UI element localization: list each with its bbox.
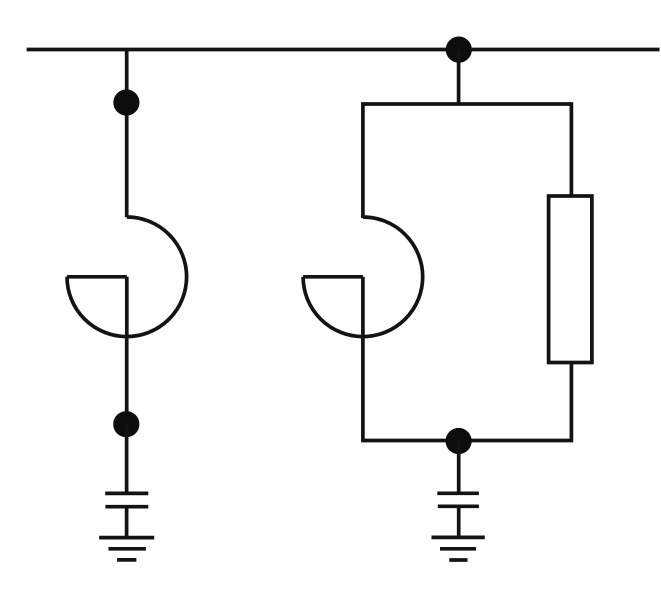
wire: reactor L1 to lower node bbox=[125, 337, 129, 424]
node: left branch upper junction bbox=[113, 89, 139, 115]
earth ground (right) bbox=[432, 537, 485, 560]
capacitor C2 (earthing capacitor, right) bbox=[437, 493, 479, 506]
earth ground (left) bbox=[99, 538, 154, 560]
wire: capacitor C1 to earth bbox=[125, 507, 129, 538]
node: left branch lower junction bbox=[113, 411, 139, 437]
node: right branch bus tap bbox=[446, 37, 472, 63]
capacitor C1 (earthing capacitor, left) bbox=[105, 493, 148, 506]
wire: bus node down to top tie bbox=[457, 50, 461, 105]
reactor L1 (single-line inductor/choke symbol) bbox=[67, 217, 187, 337]
node: right branch lower junction bbox=[446, 428, 472, 454]
wire: node to capacitor C1 bbox=[125, 424, 129, 493]
wire: node to capacitor C2 bbox=[457, 441, 461, 493]
busbar (horizontal bus line) bbox=[27, 48, 660, 52]
wire: capacitor C2 to earth bbox=[457, 506, 461, 537]
resistor R1 (damping resistor) bbox=[549, 196, 592, 363]
wire: bottom tie of parallel combination (from reactor L2 and resistor R1) bbox=[363, 335, 572, 441]
wire: bus tap down to reactor L1 bbox=[125, 50, 129, 218]
wire: top tie of parallel combination (to reactor L2 and resistor R1) bbox=[363, 104, 572, 218]
reactor L2 (single-line inductor/choke symbol) bbox=[303, 217, 423, 337]
